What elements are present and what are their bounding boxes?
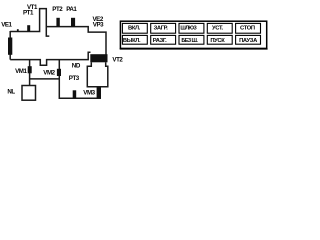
svg-text:VM2: VM2 [43, 70, 55, 77]
svg-text:ЗАГР.: ЗАГР. [154, 26, 169, 32]
svg-text:СТОП: СТОП [240, 26, 255, 32]
svg-text:PT3: PT3 [69, 75, 80, 82]
svg-text:VT2: VT2 [112, 56, 123, 63]
svg-text:VE1: VE1 [1, 21, 12, 28]
svg-text:БЕЗ Ш.: БЕЗ Ш. [181, 38, 198, 44]
svg-text:УСТ.: УСТ. [212, 26, 223, 32]
svg-text:ВЫКЛ.: ВЫКЛ. [123, 38, 141, 44]
svg-text:VP3: VP3 [93, 22, 104, 29]
svg-text:PT1: PT1 [23, 10, 34, 17]
svg-text:ШЛЮЗ: ШЛЮЗ [180, 26, 197, 32]
svg-text:ND: ND [72, 63, 81, 70]
svg-text:VM1: VM1 [15, 68, 27, 75]
svg-text:ПУСК: ПУСК [210, 38, 225, 44]
svg-text:РАЗГ.: РАЗГ. [153, 38, 167, 44]
svg-text:PT2: PT2 [52, 6, 63, 13]
svg-text:NL: NL [7, 89, 15, 96]
svg-text:ПАУЗА: ПАУЗА [239, 38, 258, 44]
svg-text:PA1: PA1 [66, 6, 77, 13]
svg-text:VM3: VM3 [83, 90, 95, 97]
svg-text:ВКЛ.: ВКЛ. [128, 26, 141, 32]
